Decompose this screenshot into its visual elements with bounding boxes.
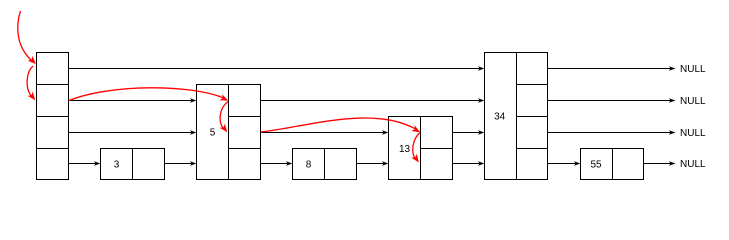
svg-text:13: 13 — [399, 144, 411, 155]
wire L3 13 to 34 — [453, 130, 485, 135]
node 13 — [389, 117, 453, 180]
svg-text:34: 34 — [494, 112, 506, 123]
svg-text:3: 3 — [114, 160, 120, 171]
node 5 — [197, 85, 261, 180]
wire L4 13 to 34 — [453, 161, 485, 166]
head node — [37, 53, 69, 180]
wire L4 head to 3 — [69, 161, 101, 166]
wire L3 34 to NULL — [548, 130, 676, 135]
node 55 — [581, 149, 644, 180]
wire L4 5 to 8 — [261, 161, 293, 166]
red search arrow 6 node13 down level3 to level4 — [411, 133, 421, 165]
svg-text:NULL: NULL — [680, 159, 706, 170]
svg-text:NULL: NULL — [680, 128, 706, 139]
svg-text:NULL: NULL — [680, 64, 706, 75]
wire L4 3 to 5 — [165, 161, 197, 166]
wire L2 34 to NULL — [548, 98, 676, 103]
node 3 — [101, 149, 165, 180]
red search arrow 1 entry to head level1 — [18, 11, 38, 66]
wire L1 head to 34 — [69, 66, 485, 71]
wire L2 5 to 34 — [261, 98, 485, 103]
wire L4 8 to 13 — [357, 161, 389, 166]
wire L4 34 to 55 — [548, 161, 581, 166]
svg-text:8: 8 — [306, 160, 312, 171]
svg-text:5: 5 — [210, 128, 216, 139]
wire L3 head to 5 — [69, 130, 197, 135]
node 8 — [293, 149, 357, 180]
wire L4 55 to NULL — [644, 161, 676, 166]
wire L3 5 to 13 — [261, 130, 389, 135]
red search arrow 5 node5 to node13 level3 — [261, 118, 422, 135]
node 34 — [485, 53, 548, 180]
svg-text:55: 55 — [590, 160, 602, 171]
red search arrow 2 head level1 to level2 — [27, 66, 38, 102]
wire L2 head to 5 — [69, 98, 197, 103]
red search arrow 4 node5 down level2 to level3 — [220, 102, 230, 135]
wire L1 34 to NULL — [548, 66, 676, 71]
svg-text:NULL: NULL — [680, 96, 706, 107]
red search arrow 3 head to node5 level2 — [69, 88, 230, 104]
